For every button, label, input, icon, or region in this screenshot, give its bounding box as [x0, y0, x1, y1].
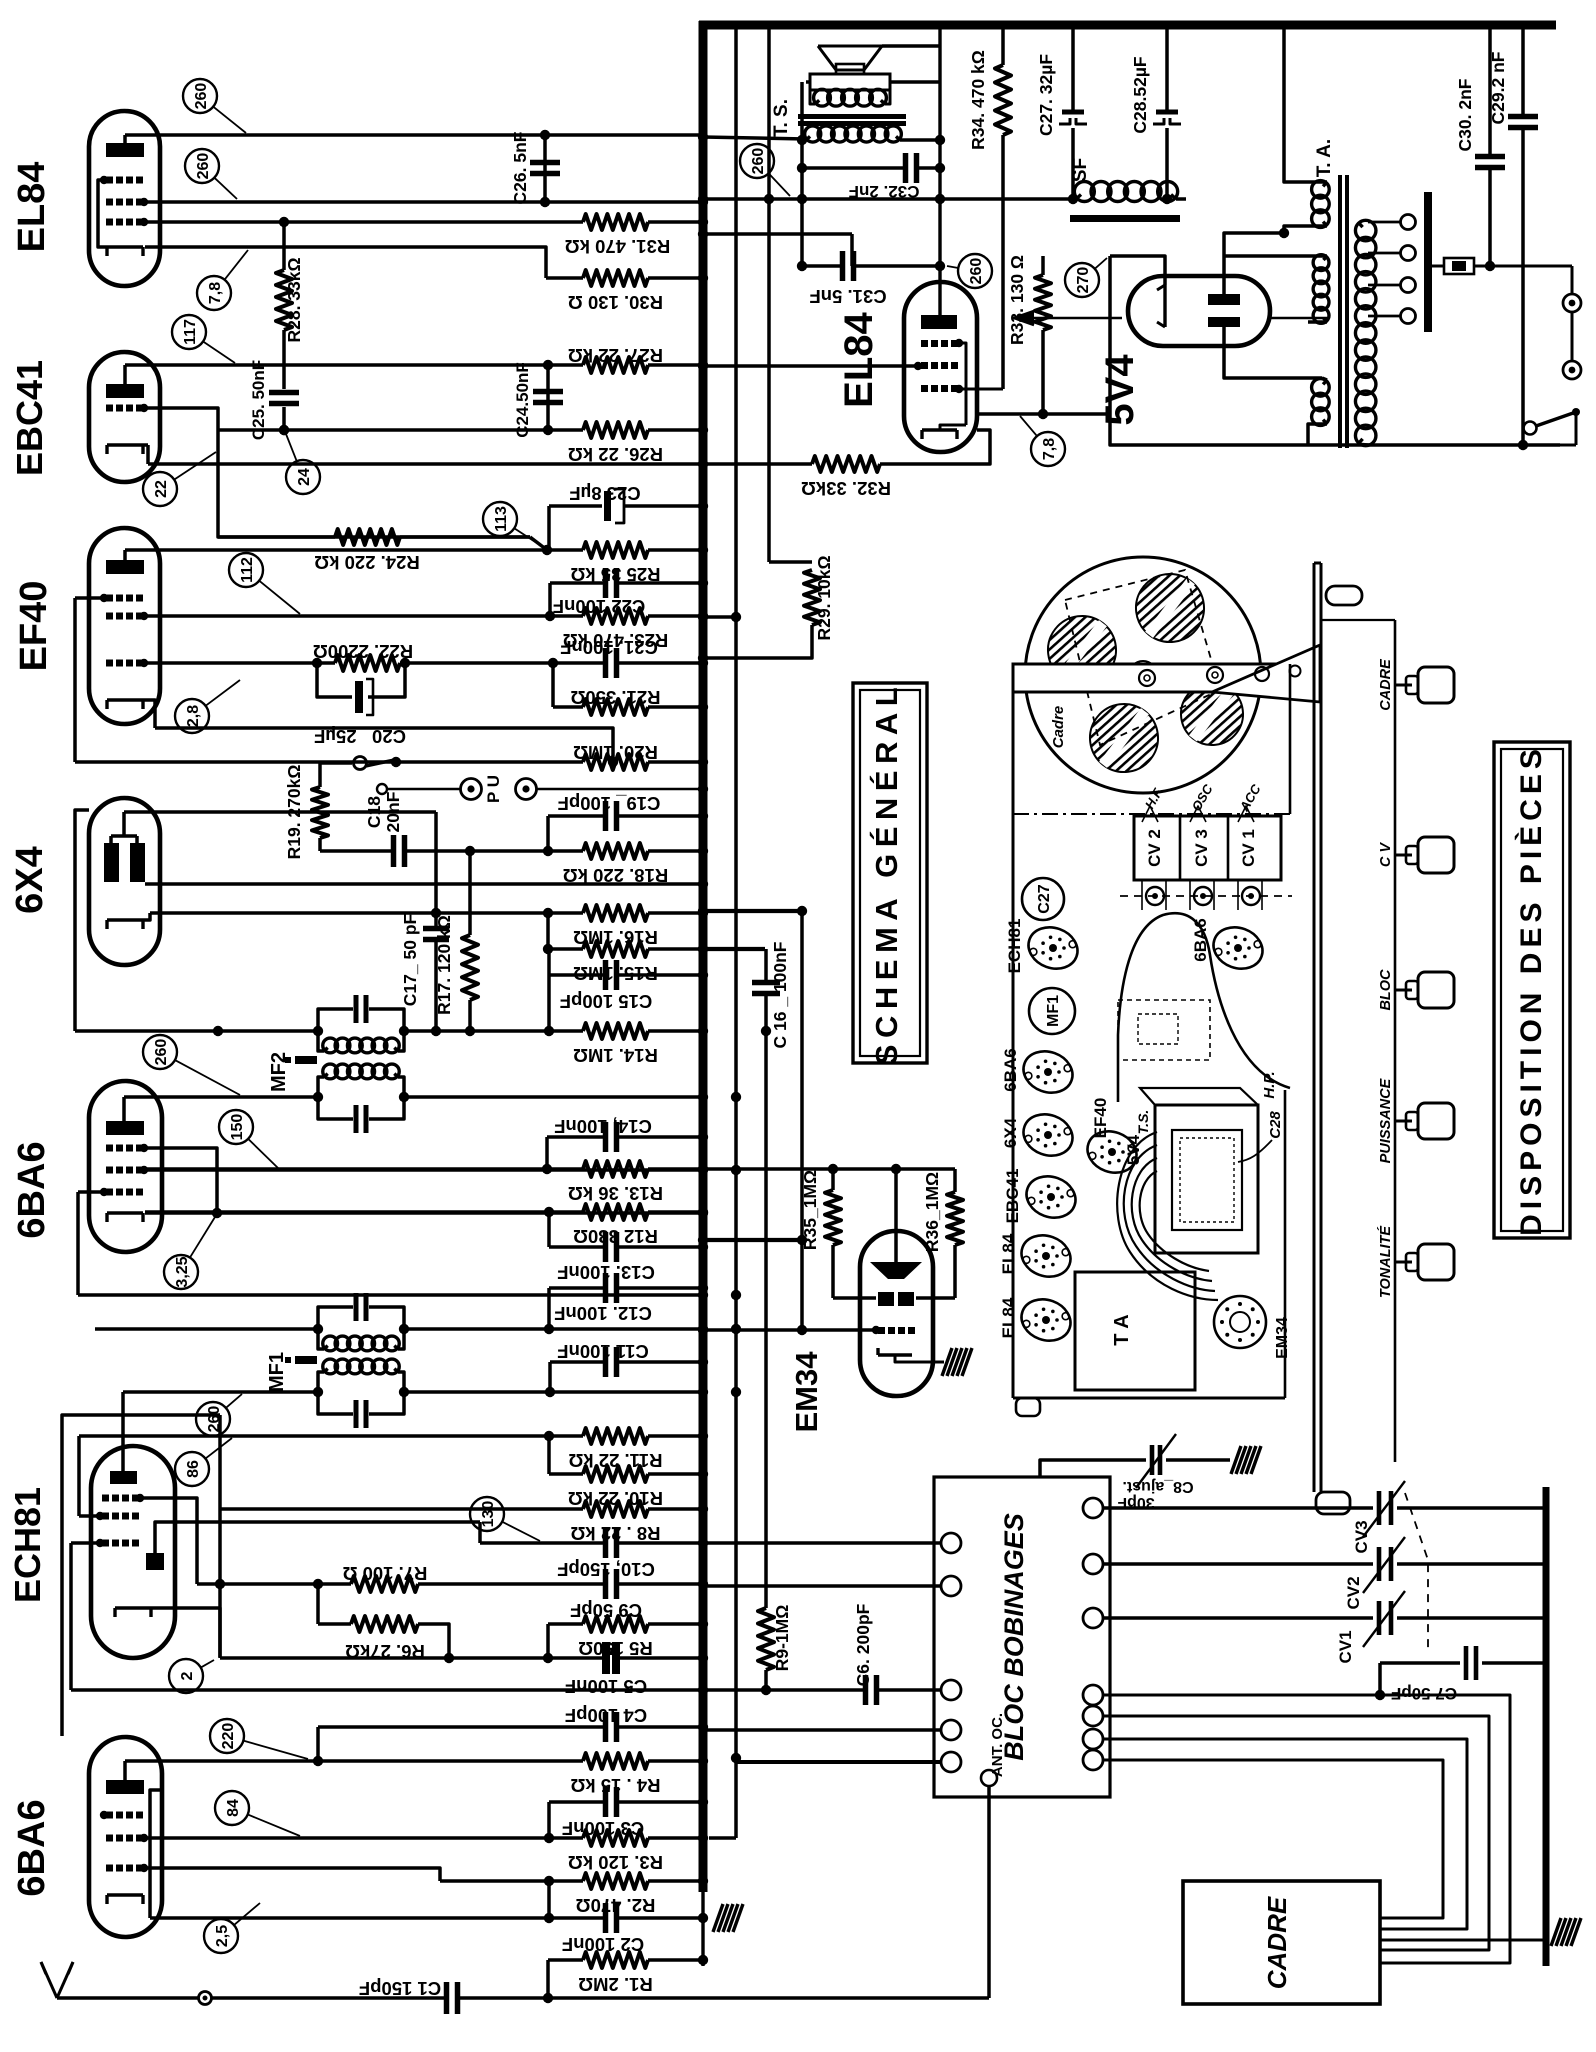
tube V1 EL84 grid g1 row	[106, 219, 113, 226]
tube V5 6BA6 envelope	[89, 1081, 162, 1252]
transformer T.S. secondary coil	[805, 126, 821, 142]
svg-text:R9-1MΩ: R9-1MΩ	[772, 1605, 792, 1672]
wire row y728 jog	[155, 728, 613, 762]
tuning gang CV block	[1134, 816, 1281, 880]
wire right heavy rail	[1543, 1487, 1550, 1966]
svg-text:C4 100pF: C4 100pF	[565, 1705, 647, 1726]
tube V3 EF40 cathode	[107, 698, 143, 701]
tube V3 EF40 grid g1 row	[106, 660, 113, 667]
wire cathode row y1213	[145, 1211, 703, 1215]
svg-text:C14, 100nF: C14, 100nF	[554, 1116, 652, 1137]
transformer T.A. primary windings	[1312, 181, 1330, 199]
callout 260 anode	[183, 79, 217, 113]
tube V1 EL84 grid g2 row	[106, 199, 113, 206]
variable capacitor CV1	[1103, 1616, 1373, 1620]
resistor R30 130 ohm	[546, 276, 583, 280]
variable capacitor CV2	[1103, 1562, 1373, 1566]
svg-text:C12. 100nF: C12. 100nF	[554, 1303, 652, 1324]
tube V6 ECH81 grid rows	[102, 1495, 109, 1502]
callout 117	[172, 315, 206, 349]
box BLOC BOBINAGES	[934, 1477, 1110, 1797]
wire rail x766 lower to R9	[764, 1031, 768, 1608]
tube V1 EL84 anode	[106, 143, 144, 157]
svg-text:C26. 5nF: C26. 5nF	[510, 131, 530, 204]
svg-text:6BA6: 6BA6	[11, 1799, 53, 1896]
svg-text:R28. 33kΩ: R28. 33kΩ	[284, 257, 304, 342]
capacitor C17 50pF	[434, 812, 438, 926]
tube V5 6BA6 grid g1 row	[106, 1145, 113, 1152]
layout tube EL84 b	[1016, 1293, 1077, 1348]
svg-text:SCHEMA GÉNÉRAL: SCHEMA GÉNÉRAL	[869, 681, 904, 1065]
wire row y1762 to bloc from rail	[736, 1760, 940, 1764]
svg-text:R30. 130 Ω: R30. 130 Ω	[568, 292, 663, 313]
wire antenna to ANT OC	[987, 1786, 991, 1998]
wire 6X4 plate row y812	[124, 810, 436, 814]
tube V7 6BA6 envelope	[89, 1737, 162, 1937]
wire cadre loop 3	[1103, 1739, 1467, 1929]
svg-text:84: 84	[225, 1799, 242, 1817]
resistor R2 470ohm row	[145, 1868, 440, 1881]
layout tube ECH81	[1023, 921, 1084, 976]
transformer MF1 core adjust	[295, 1356, 317, 1364]
ground at bus near C2	[713, 1904, 743, 1932]
tube V2 EBC41 grid row	[106, 405, 113, 412]
transformer MF1 primary tank	[318, 1307, 353, 1329]
svg-text:ANT. OC.: ANT. OC.	[989, 1713, 1006, 1777]
svg-text:R24. 220 kΩ: R24. 220 kΩ	[314, 552, 420, 573]
pilot lamp	[1326, 586, 1362, 605]
svg-text:R29. 10kΩ: R29. 10kΩ	[814, 555, 834, 640]
callout 24	[286, 460, 320, 494]
svg-text:6BA6: 6BA6	[11, 1141, 53, 1238]
callout 260 screen	[185, 149, 219, 183]
resistor R33 130ohm vertical	[1041, 256, 1045, 275]
layout tube 6BA6 b	[1208, 921, 1269, 976]
wire 6BA6 wrap vertical	[76, 1192, 80, 1295]
svg-text:112: 112	[239, 557, 256, 583]
speaker cone	[818, 46, 882, 70]
transformer T.S. core	[798, 114, 906, 119]
resistor R3 120k row	[145, 1836, 583, 1840]
knob CADRE	[1395, 684, 1412, 687]
ground at EM34	[942, 1348, 972, 1376]
resistor R17 120k vertical	[468, 851, 472, 935]
tube V9 5V4 plate leads	[1224, 233, 1284, 294]
capacitor C30 2nF vertical	[1488, 27, 1492, 154]
tube V1 EL84 cathode	[107, 245, 143, 248]
svg-text:260: 260	[968, 258, 985, 285]
callout 270	[1065, 263, 1099, 297]
capacitor C32 2nF	[802, 166, 905, 170]
tube V8 EL84 envelope	[904, 282, 977, 452]
svg-text:EM34: EM34	[1274, 1317, 1291, 1359]
capacitor C29 2nF vertical	[1521, 27, 1525, 114]
wire row y1543 to bloc	[703, 1541, 940, 1545]
capacitor C3 100nF row	[547, 1802, 551, 1838]
svg-text:H.P.: H.P.	[1261, 1071, 1278, 1098]
svg-text:6X4: 6X4	[1001, 1117, 1020, 1148]
wire antenna row y1998	[57, 1996, 199, 2000]
wire 5V4 box left/bottom	[1110, 256, 1560, 445]
wire main HT bus top bar	[699, 21, 1556, 30]
svg-text:6BA6: 6BA6	[1001, 1048, 1020, 1091]
wire row cathode EL84 jog	[145, 247, 546, 278]
tube V1 EL84 grid g3 row + strap	[106, 177, 113, 184]
capacitor C24 50nF	[546, 365, 550, 430]
svg-text:R13. 36 kΩ: R13. 36 kΩ	[568, 1183, 663, 1204]
resistor R14 1M row y1031	[75, 1029, 317, 1033]
resistor R21 350ohm	[551, 663, 555, 707]
svg-text:C V: C V	[1378, 842, 1394, 868]
svg-text:C23 8µF: C23 8µF	[569, 483, 640, 504]
chassis left edge	[1012, 664, 1015, 1398]
tube V5 6BA6 grid g2 row	[106, 1167, 113, 1174]
wire ECH81 right rail to row	[218, 1415, 222, 1657]
knob PUISSANCE	[1395, 1120, 1412, 1123]
tube V2 EBC41 envelope	[89, 352, 160, 482]
svg-text:P U: P U	[484, 775, 503, 803]
svg-text:BLOC: BLOC	[1378, 969, 1394, 1011]
wire ECH81 outer left rail	[62, 1415, 220, 1736]
wire row y617 bus to rail	[703, 615, 736, 619]
trimmers under CV block	[1120, 895, 1292, 897]
resistor R26 22k row	[145, 408, 218, 430]
transformer MF2 primary tank	[318, 1009, 353, 1031]
knob TONALITÉ	[1395, 1261, 1412, 1264]
tube V9 5V4 plates	[1208, 294, 1240, 305]
svg-text:R14. 1MΩ: R14. 1MΩ	[573, 1045, 658, 1066]
wire rail x802 middle segment	[800, 911, 804, 1330]
svg-text:EF40: EF40	[13, 581, 55, 672]
svg-text:260: 260	[193, 83, 210, 110]
knob C V	[1395, 854, 1412, 857]
tube V6 ECH81 triode anode	[146, 1553, 164, 1570]
capacitor C22 100nF	[548, 583, 552, 616]
layout T.S. transformer 3d box	[1155, 1105, 1258, 1253]
wire row y199 to SF	[703, 197, 1076, 200]
svg-text:DISPOSITION DES PIÈCES: DISPOSITION DES PIÈCES	[1514, 744, 1548, 1236]
capacitor C4 100pF row	[316, 1727, 320, 1761]
svg-text:CV 2: CV 2	[1145, 829, 1164, 867]
tube V6 ECH81 envelope	[91, 1446, 175, 1658]
wire row y949 bus to C16	[703, 947, 765, 951]
resistor R24 220k	[218, 535, 335, 539]
svg-text:CV 3: CV 3	[1192, 829, 1211, 867]
wire row y1304	[78, 1293, 703, 1297]
svg-text:113: 113	[493, 506, 510, 532]
svg-text:R3. 120 kΩ: R3. 120 kΩ	[568, 1852, 663, 1873]
ground at C8	[1231, 1446, 1261, 1474]
wire row y1169 right of bus	[703, 1167, 955, 1171]
resistor R22 2200ohm	[335, 655, 400, 671]
capacitor C6 200pF	[703, 1688, 865, 1692]
variable capacitor CV3	[1103, 1506, 1373, 1510]
svg-text:MF1: MF1	[1045, 995, 1062, 1027]
tube V8 EL84 grid g2 row to R34	[921, 385, 928, 392]
wire bus thin lower continuation	[701, 1892, 704, 1966]
tube V4 6X4 envelope	[89, 798, 160, 965]
resistor R29 10k on rail detour	[769, 560, 812, 564]
wire bundle curves	[1117, 1132, 1218, 1300]
callout 86	[175, 1452, 209, 1486]
capacitor C11 100nF row	[548, 1362, 552, 1392]
wire secondary left vertical x802	[797, 135, 807, 145]
wire R32 row right part	[812, 456, 880, 472]
chassis bottom edge	[1013, 1397, 1285, 1400]
tube V8 EL84 cathode	[922, 428, 957, 431]
wire 6BA6b wrap loop	[150, 1790, 160, 1918]
svg-text:R7. 100 Ω: R7. 100 Ω	[342, 1563, 427, 1584]
front panel double line	[1313, 563, 1316, 1492]
resistor R36 1M vertical	[953, 1169, 957, 1192]
svg-text:3,25: 3,25	[174, 1256, 191, 1287]
svg-text:C1 150pF: C1 150pF	[359, 1978, 441, 1999]
voltage selector arrow	[1022, 317, 1122, 320]
svg-text:C8_ajust.: C8_ajust.	[1122, 1478, 1193, 1495]
svg-text:270: 270	[1075, 267, 1092, 294]
transformer T.A. core	[1338, 175, 1342, 448]
dial mounting bar	[1013, 664, 1290, 692]
layout tube EL84 a	[1016, 1229, 1077, 1284]
capacitor C10 150pF row	[478, 1522, 482, 1543]
tube V3 EF40 envelope	[89, 528, 160, 724]
wire cadre loop 2	[1103, 1716, 1489, 1950]
svg-text:EBC41: EBC41	[1003, 1169, 1022, 1224]
resistor R34 470k vertical	[1001, 27, 1005, 65]
svg-text:C29.2 nF: C29.2 nF	[1488, 51, 1508, 124]
ground at right rail	[1551, 1918, 1581, 1946]
wire row y1170 long	[145, 1168, 703, 1172]
wire row g1 y1148 jog down	[145, 1148, 217, 1213]
svg-text:T.S.: T.S.	[1135, 1110, 1151, 1135]
layout tube EBC41	[1021, 1170, 1082, 1225]
svg-text:260: 260	[206, 1406, 223, 1433]
svg-text:R34. 470 kΩ: R34. 470 kΩ	[968, 50, 988, 150]
svg-text:2: 2	[179, 1671, 196, 1680]
callout 22	[143, 472, 177, 506]
transformer T.S. frame wires	[806, 80, 810, 84]
resistor R15 1M row y949	[546, 913, 550, 949]
svg-text:ECH81: ECH81	[7, 1487, 48, 1603]
layout EM34 eye tube	[1214, 1296, 1266, 1348]
capacitor C27 32uF vertical	[1071, 27, 1075, 112]
resistor R10 22k row	[547, 1436, 551, 1474]
tube V10 EM34 target triangle	[894, 1169, 898, 1262]
svg-text:CADRE: CADRE	[1262, 1896, 1292, 1989]
svg-text:C5 100nF: C5 100nF	[565, 1676, 647, 1697]
wire cadre loop 4	[1103, 1760, 1443, 1918]
tube V5 6BA6 anode	[106, 1121, 144, 1135]
svg-text:T. A.: T. A.	[1314, 139, 1335, 177]
transformer MF1 secondary tank	[323, 1359, 338, 1374]
svg-text:EF40: EF40	[1091, 1098, 1110, 1139]
wire 6X4 wrap loop	[75, 810, 89, 1031]
svg-text:R26. 22 kΩ: R26. 22 kΩ	[568, 444, 663, 465]
wire row y1730 to bloc	[703, 1728, 940, 1732]
switch PU open circle + lever	[320, 761, 352, 765]
callout 7,8 heater	[197, 276, 231, 310]
transformer T.A. secondary winding	[1355, 220, 1375, 240]
svg-text:C19_ 100pF: C19_ 100pF	[558, 793, 661, 814]
svg-text:C15 100pF: C15 100pF	[560, 991, 653, 1012]
svg-text:150: 150	[229, 1114, 246, 1141]
callout 260 top right	[740, 144, 774, 178]
svg-text:ECH81: ECH81	[1005, 919, 1024, 974]
svg-text:260: 260	[153, 1039, 170, 1066]
svg-text:130: 130	[480, 1501, 497, 1528]
resistor R4 15k row	[125, 1759, 583, 1763]
antenna symbol	[41, 1962, 57, 1998]
svg-text:CV 1: CV 1	[1239, 829, 1258, 867]
wire cadre loop 1	[1103, 1695, 1510, 1963]
wire row y1392 MF1 sec	[123, 1390, 318, 1394]
callout 3,25	[164, 1255, 198, 1289]
callout 112	[229, 553, 263, 587]
callout 7,8 right	[1031, 432, 1065, 466]
svg-text:C11 100nF: C11 100nF	[557, 1341, 649, 1362]
svg-text:C28.52µF: C28.52µF	[1130, 56, 1150, 134]
tube V2 EBC41 cathode	[107, 443, 143, 446]
wire 6BA6 anode row to MF2	[124, 1095, 318, 1099]
CV block pin stubs	[1141, 880, 1143, 910]
svg-text:5V4: 5V4	[1098, 354, 1142, 426]
IF can dashed box on chassis	[1118, 1000, 1210, 1060]
bloc left terminals	[941, 1533, 961, 1553]
capacitor C28 52uF vertical	[1165, 27, 1169, 112]
tube V4 6X4 cathode	[107, 918, 143, 921]
svg-text:7,8: 7,8	[1041, 438, 1058, 460]
svg-text:C30. 2nF: C30. 2nF	[1455, 78, 1475, 151]
svg-text:86: 86	[185, 1460, 202, 1478]
svg-text:2,8: 2,8	[185, 705, 202, 727]
svg-text:260: 260	[750, 148, 767, 175]
capacitor C18 20nF	[320, 849, 392, 853]
capacitor C16 100nF vertical	[764, 949, 768, 980]
wire row y911 bus to rail	[703, 909, 802, 913]
capacitor C13 100nF row	[547, 1212, 551, 1247]
svg-text:C17_ 50 pF: C17_ 50 pF	[400, 913, 420, 1006]
capacitor C12 100nF row	[547, 1288, 551, 1329]
wire ECH81 left wrap g strap	[77, 1436, 81, 1516]
bloc right terminals	[1083, 1498, 1103, 1518]
tube V2 EBC41 anode	[106, 384, 144, 398]
title box DISPOSITION DES PIECES	[1494, 742, 1570, 1238]
resistor R20 1M row	[75, 760, 583, 764]
dial glass line	[1394, 620, 1397, 1462]
box CADRE	[1183, 1881, 1380, 2004]
resistor R23 470k row	[145, 614, 583, 618]
callout 260 ECH81	[196, 1402, 230, 1436]
wire row y1240 bus to rail	[703, 1238, 802, 1242]
resistor R19 270k vertical	[318, 763, 322, 787]
wire row C21/R22 y663	[145, 661, 317, 665]
tube V6 ECH81 heptode anode	[110, 1471, 137, 1484]
svg-text:CADRE: CADRE	[1378, 658, 1394, 711]
tube V1 EL84 envelope	[89, 111, 160, 286]
transformer MF2 secondary tank	[323, 1064, 338, 1079]
dial cord dashed square	[1065, 570, 1220, 745]
svg-text:R36_1MΩ: R36_1MΩ	[922, 1172, 942, 1252]
layout capacitor C27 circle	[1022, 878, 1064, 920]
resistor R8 22k row	[220, 1507, 583, 1511]
transformer T.A. secondary taps	[1368, 221, 1400, 224]
callout 260 near 6BA6	[143, 1035, 177, 1069]
tube V7 6BA6 anode	[106, 1780, 144, 1794]
wire row screen EL84 y202	[145, 200, 703, 203]
callout 220	[210, 1719, 244, 1753]
wire row y1329 long	[95, 1327, 318, 1331]
svg-text:T. S.: T. S.	[771, 99, 792, 137]
wire rail x802 T.S. side	[800, 82, 804, 268]
resistor R7 100ohm	[351, 1576, 418, 1592]
svg-text:R22. 2200Ω: R22. 2200Ω	[313, 641, 413, 662]
svg-text:C24.50nF: C24.50nF	[513, 362, 532, 438]
svg-text:C28: C28	[1267, 1111, 1284, 1139]
capacitor C1 150pF	[444, 1982, 450, 2014]
svg-text:MF1: MF1	[266, 1352, 288, 1392]
layout tube 6X4	[1018, 1108, 1079, 1163]
title box SCHEMA GENERAL	[853, 683, 927, 1063]
wire row y1696 long	[71, 1688, 703, 1692]
wire rail A x=736	[734, 25, 738, 1838]
tube V6 ECH81 cathode	[115, 1606, 151, 1609]
transformer MF2 core adjust	[295, 1056, 317, 1064]
wire row y234	[703, 232, 852, 236]
tube V10 EM34 grid row	[878, 1327, 885, 1334]
capacitor C19 100pF row	[546, 816, 550, 851]
wire ECH81 g1 down-lead	[69, 1543, 73, 1690]
resistor R27 22k row	[125, 363, 583, 367]
callout 2,5	[204, 1919, 238, 1953]
tube V9 5V4 heater	[1163, 285, 1166, 327]
svg-text:EL84: EL84	[837, 311, 881, 407]
callout 113	[483, 502, 517, 536]
wire MF2 sec row to bus	[404, 1095, 703, 1099]
tube V4 6X4 anode plates	[104, 843, 119, 882]
dial drum circle	[1025, 557, 1261, 793]
tube V5 6BA6 grid g3 + strap	[106, 1189, 113, 1196]
svg-text:6X4: 6X4	[9, 846, 51, 914]
gang dashed line	[1405, 1493, 1428, 1648]
capacitor C5 100nF row	[220, 1656, 602, 1660]
svg-text:CV1: CV1	[1336, 1630, 1355, 1663]
svg-text:7,8: 7,8	[207, 282, 224, 304]
svg-text:R11. 22 kΩ: R11. 22 kΩ	[568, 1450, 662, 1471]
svg-text:TONALITÉ: TONALITÉ	[1377, 1225, 1394, 1299]
capacitor C26 5nF	[543, 135, 547, 202]
wire rail B x=769 upper	[767, 25, 771, 562]
svg-text:C 16 _ 100nF: C 16 _ 100nF	[770, 941, 790, 1048]
callout 84	[215, 1791, 249, 1825]
jack PU terminals	[388, 788, 460, 791]
transformer T.S. primary coil	[814, 89, 831, 106]
svg-text:EL84: EL84	[999, 1297, 1018, 1338]
svg-text:R35_1MΩ: R35_1MΩ	[800, 1170, 820, 1250]
svg-text:R21. 350Ω: R21. 350Ω	[570, 687, 660, 708]
svg-text:C27. 32µF: C27. 32µF	[1036, 54, 1056, 136]
layout transformer MF1 circle	[1029, 988, 1075, 1034]
tube V8 EL84 anode	[921, 315, 957, 329]
svg-text:117: 117	[182, 319, 199, 345]
svg-text:24: 24	[296, 468, 313, 486]
chassis right region verticals	[1289, 664, 1292, 814]
layout tube EF40	[1082, 1125, 1143, 1180]
svg-text:EL84: EL84	[999, 1233, 1018, 1274]
callout 150	[219, 1110, 253, 1144]
svg-text:C2 100nF: C2 100nF	[562, 1934, 644, 1955]
svg-text:C27: C27	[1036, 884, 1053, 913]
svg-text:C25. 50nF: C25. 50nF	[249, 360, 268, 440]
